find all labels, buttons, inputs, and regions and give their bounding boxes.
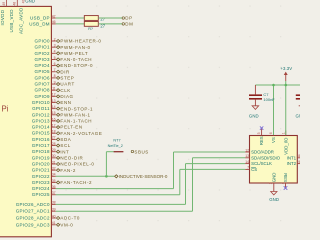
svg-text:PWM-HEATER-0: PWM-HEATER-0	[60, 39, 101, 44]
svg-text:CLK: CLK	[60, 88, 70, 93]
hierarchical label STEP	[56, 76, 74, 81]
hierarchical label FAN-0-TACH	[56, 57, 92, 62]
svg-text:SDA/SDI/SDIO: SDA/SDI/SDIO	[251, 155, 281, 160]
svg-text:29: 29	[52, 148, 56, 152]
svg-text:DM: DM	[125, 22, 133, 27]
hierarchical label FAN-2-VOLTAGE	[56, 131, 102, 136]
svg-text:GND: GND	[25, 0, 35, 4]
hierarchical label PWM-FAN-0	[56, 45, 90, 50]
svg-text:GPIO20: GPIO20	[32, 161, 50, 166]
svg-text:DIR: DIR	[60, 69, 70, 74]
pin 36 GPIO24	[32, 185, 56, 191]
svg-text:NEO-PIXEL-0: NEO-PIXEL-0	[60, 162, 94, 167]
svg-text:DIAG: DIAG	[60, 94, 73, 99]
svg-text:PWM-FAN-1: PWM-FAN-1	[60, 112, 90, 117]
svg-text:13: 13	[52, 99, 56, 103]
svg-text:40: 40	[52, 214, 56, 218]
pin 14 GPIO11	[32, 105, 56, 111]
svg-text:GPIO22: GPIO22	[32, 174, 50, 179]
ground symbol below C8 (cut)	[296, 106, 306, 119]
svg-text:15: 15	[52, 111, 56, 115]
svg-text:12: 12	[52, 93, 56, 97]
svg-text:GPIO10: GPIO10	[32, 100, 50, 105]
hierarchical label END-STOP-0	[56, 63, 93, 68]
pin 4 GPIO2	[35, 50, 56, 56]
hierarchical label FAN-TACH-2	[56, 180, 92, 185]
wire GPIO22 to INDUCTIVE-SENSOR-0	[56, 175, 115, 177]
svg-text:41: 41	[52, 221, 56, 225]
net tie NT7 NetTie_2	[108, 139, 124, 152]
svg-text:14: 14	[52, 105, 56, 109]
svg-text:9: 9	[54, 80, 56, 84]
svg-text:28: 28	[52, 142, 56, 146]
hierarchical label END-STOP-1	[56, 106, 93, 111]
svg-text:PELT-EN: PELT-EN	[60, 125, 82, 130]
vertical pin name IOVDD	[0, 9, 5, 25]
no-connect X on pin 5	[260, 126, 263, 129]
svg-text:ADC_AVDD: ADC_AVDD	[19, 7, 24, 34]
svg-text:GPIO5: GPIO5	[35, 69, 50, 74]
hierarchical label PWM-PELT	[56, 51, 88, 56]
svg-text:FAN-TACH-2: FAN-TACH-2	[60, 180, 92, 185]
svg-text:8: 8	[298, 154, 300, 158]
hierarchical label ENN	[56, 100, 71, 105]
svg-text:17: 17	[52, 123, 56, 127]
hierarchical label DIR	[56, 69, 70, 74]
ground symbol below C7	[249, 106, 259, 119]
pin 8 GPIO6	[35, 74, 56, 80]
svg-text:NEO-DIR: NEO-DIR	[60, 155, 83, 160]
svg-text:SCL/SCLK: SCL/SCLK	[251, 161, 272, 166]
svg-text:11: 11	[52, 87, 56, 91]
svg-text:GPIO24: GPIO24	[32, 186, 50, 191]
svg-text:INT2: INT2	[287, 161, 297, 166]
hierarchical label PWM-FAN-1	[56, 112, 90, 117]
svg-text:SCL: SCL	[60, 143, 70, 148]
pin 46 USB_DM	[29, 20, 56, 26]
hierarchical label INT	[56, 149, 69, 154]
pin 44 VREG_VIN (top, partial)	[0, 1, 1, 5]
svg-text:12: 12	[245, 148, 249, 152]
svg-text:+3.3V: +3.3V	[280, 66, 292, 71]
svg-text:6: 6	[269, 132, 273, 134]
power symbol +3.3V	[280, 66, 292, 81]
svg-text:8: 8	[54, 74, 56, 78]
wire R2 to DM label	[98, 23, 122, 25]
svg-text:4: 4	[54, 50, 56, 54]
svg-text:VM-0: VM-0	[60, 222, 73, 227]
svg-text:5: 5	[257, 132, 261, 134]
svg-text:7: 7	[54, 68, 56, 72]
svg-text:GPIO8: GPIO8	[35, 88, 50, 93]
svg-text:1: 1	[281, 132, 285, 134]
svg-text:RES: RES	[283, 173, 288, 182]
svg-text:GPIO1: GPIO1	[35, 45, 50, 50]
wire +3.3V down to VDD_I/O	[285, 81, 287, 135]
svg-text:IOVDD: IOVDD	[0, 9, 5, 25]
pin 29 GPIO18	[32, 148, 56, 154]
hierarchical label CLK	[56, 88, 70, 93]
hierarchical label VM-0	[56, 222, 73, 227]
pin 32 GPIO21	[32, 166, 56, 172]
hierarchical label ADC-T0	[56, 216, 80, 221]
svg-text:34: 34	[52, 173, 56, 177]
svg-text:INDUCTIVE-SENSOR-0: INDUCTIVE-SENSOR-0	[119, 174, 168, 179]
hierarchical label UART	[56, 82, 74, 87]
svg-text:7: 7	[247, 166, 249, 170]
hierarchical label SBUS	[131, 149, 149, 154]
reference designator Pi	[1, 104, 8, 113]
svg-text:GPIO27_ADC1: GPIO27_ADC1	[16, 209, 50, 214]
hierarchical label SCL	[56, 143, 70, 148]
svg-text:NetTie_2: NetTie_2	[108, 144, 123, 148]
junction rail/VDD	[284, 84, 287, 87]
hierarchical label SDA	[56, 137, 71, 142]
svg-text:39: 39	[52, 208, 56, 212]
svg-text:DP: DP	[125, 16, 132, 21]
svg-text:SDA: SDA	[60, 137, 71, 142]
ground symbol below accelerometer	[269, 192, 279, 203]
pin 34 GPIO22	[32, 173, 56, 179]
hierarchical label INDUCTIVE-SENSOR-0	[115, 174, 168, 179]
svg-text:FAN-1-TACH: FAN-1-TACH	[60, 119, 92, 124]
pin 16 GPIO13	[32, 117, 56, 123]
capacitor C8 (cut at edge)	[296, 95, 302, 99]
svg-text:GND: GND	[249, 114, 259, 119]
wire junction up to net tie	[106, 152, 113, 177]
svg-text:GPIO14: GPIO14	[32, 125, 50, 130]
pin 7 CS	[245, 166, 257, 172]
svg-text:FAN-0-TACH: FAN-0-TACH	[60, 57, 92, 62]
svg-text:16: 16	[52, 117, 56, 121]
svg-text:VS: VS	[271, 137, 276, 143]
pin 6 VS	[269, 131, 276, 144]
svg-text:USB_DM: USB_DM	[29, 21, 50, 26]
hierarchical label FAN-1-TACH	[56, 119, 92, 124]
pin 49 IOVDD (top)	[2, 0, 7, 6]
pin 18 GPIO15	[32, 130, 56, 136]
svg-text:38: 38	[52, 201, 56, 205]
svg-text:GPIO13: GPIO13	[32, 118, 50, 123]
svg-text:GPIO17: GPIO17	[32, 143, 50, 148]
svg-text:GPIO0: GPIO0	[35, 38, 50, 43]
svg-text:30: 30	[52, 154, 56, 158]
hierarchical label PELT-EN	[56, 125, 82, 130]
pin 14 SCL/SCLK	[245, 160, 272, 166]
pin 31 GPIO20	[32, 160, 56, 166]
resistor R1 27R	[84, 16, 105, 26]
svg-text:2: 2	[54, 37, 56, 41]
wire +3.3V rail	[255, 84, 300, 86]
wire rail down to VS	[273, 85, 275, 135]
capacitor C7 100nF	[249, 85, 275, 106]
svg-text:49: 49	[2, 2, 6, 6]
hierarchical label DM	[122, 22, 133, 27]
svg-text:37: 37	[52, 191, 56, 195]
svg-text:31: 31	[52, 160, 56, 164]
svg-text:PWM-PELT: PWM-PELT	[60, 51, 88, 56]
svg-text:GPIO2: GPIO2	[35, 51, 50, 56]
junction on GPIO22 net	[105, 175, 108, 178]
svg-text:5: 5	[54, 56, 56, 60]
resistor R2 27R	[84, 22, 105, 32]
pin 48 USB_VDD (top)	[13, 0, 18, 6]
wire SDA net: GPIO row to accelerometer	[56, 158, 245, 211]
svg-text:GPIO28_ADC2: GPIO28_ADC2	[16, 215, 50, 220]
svg-text:32: 32	[52, 166, 56, 170]
hierarchical label DIAG	[56, 94, 73, 99]
no-connect X on pin 4	[284, 186, 288, 190]
vertical pin name ADC_AVDD	[19, 7, 24, 34]
pin 37 GPIO25	[32, 191, 56, 197]
hierarchical label NEO-DIR	[56, 155, 83, 160]
net label GND (top)	[25, 0, 35, 4]
wire SCL net: GPIO row to accelerometer	[56, 164, 245, 205]
svg-text:GPIO12: GPIO12	[32, 112, 50, 117]
svg-text:ENN: ENN	[60, 100, 71, 105]
svg-text:GN: GN	[296, 114, 301, 119]
svg-text:NT7: NT7	[113, 139, 120, 143]
svg-text:USB_VDD: USB_VDD	[9, 9, 14, 33]
svg-text:GPIO16: GPIO16	[32, 137, 50, 142]
accelerometer U2 (ADXL345) body	[250, 136, 298, 184]
svg-text:48: 48	[13, 2, 17, 6]
svg-text:R?: R?	[88, 27, 93, 31]
svg-text:USB_DP: USB_DP	[30, 15, 50, 20]
wire SDO net: GPIO row to accelerometer	[56, 152, 245, 189]
pin 2 GPIO0	[35, 37, 56, 43]
svg-text:GPIO9: GPIO9	[35, 94, 50, 99]
svg-text:FAN-2-VOLTAGE: FAN-2-VOLTAGE	[60, 131, 102, 136]
hierarchical label DP	[122, 16, 133, 21]
svg-text:STEP: STEP	[60, 76, 74, 81]
hierarchical label NEO-PIXEL-0	[56, 162, 94, 167]
svg-text:Pi: Pi	[1, 104, 8, 113]
pin 9 GPIO7	[35, 80, 56, 86]
vertical pin name USB_VDD	[9, 9, 14, 33]
pin 5 RES (no connect)	[257, 129, 264, 145]
pin 41 GPIO29_ADC3	[16, 221, 56, 227]
svg-text:GPIO23: GPIO23	[32, 180, 50, 185]
svg-text:18: 18	[52, 130, 56, 134]
svg-text:INT1: INT1	[287, 155, 297, 160]
svg-text:INT: INT	[60, 149, 69, 154]
pin 8 INT1	[287, 154, 301, 160]
svg-text:ADC-T0: ADC-T0	[60, 216, 80, 221]
pin 39 GPIO27_ADC1	[16, 208, 56, 214]
pin 11 GPIO8	[35, 87, 56, 93]
pin 7 GPIO5	[35, 68, 56, 74]
hierarchical label FAN-2	[56, 168, 76, 173]
svg-text:END-STOP-0: END-STOP-0	[60, 63, 93, 68]
wire R1 to DP label	[98, 17, 122, 19]
wire USB_DM to R2	[56, 23, 85, 25]
svg-text:GPIO3: GPIO3	[35, 57, 50, 62]
svg-text:9: 9	[298, 160, 300, 164]
svg-text:GPIO26_ADC0: GPIO26_ADC0	[16, 202, 50, 207]
svg-text:47: 47	[52, 14, 56, 18]
svg-text:27: 27	[100, 17, 105, 22]
pin 15 GPIO12	[32, 111, 56, 117]
svg-text:UART: UART	[60, 82, 74, 87]
pin 6 GPIO4	[35, 62, 56, 68]
pin 13 GPIO10	[32, 99, 56, 105]
junction rail/VS	[272, 84, 275, 87]
svg-text:3: 3	[54, 43, 56, 47]
svg-text:GPIO18: GPIO18	[32, 149, 50, 154]
wire CS net: GPIO row to accelerometer	[56, 169, 245, 194]
svg-text:35: 35	[52, 179, 56, 183]
svg-text:SBUS: SBUS	[134, 149, 148, 154]
svg-text:SDO/ADDR: SDO/ADDR	[251, 150, 274, 155]
pin 27 GPIO16	[32, 136, 56, 142]
pin 1 VDD_I/O	[281, 131, 288, 155]
svg-text:6: 6	[54, 62, 56, 66]
svg-text:FAN-2: FAN-2	[60, 168, 76, 173]
svg-text:GPIO11: GPIO11	[32, 106, 50, 111]
svg-text:VDD_I/O: VDD_I/O	[283, 137, 288, 155]
pin 3 GPIO1	[35, 43, 56, 49]
pin 47 USB_DP	[30, 14, 56, 20]
svg-text:GPIO4: GPIO4	[35, 63, 50, 68]
svg-text:END-STOP-1: END-STOP-1	[60, 106, 93, 111]
svg-text:PWM-FAN-0: PWM-FAN-0	[60, 45, 90, 50]
pin 4 RES (bottom, no connect)	[281, 173, 288, 187]
svg-text:GPIO21: GPIO21	[32, 168, 50, 173]
pin 43 ADC_AVDD (top)	[22, 0, 26, 3]
pin 12 SDO/ADDR	[245, 148, 274, 154]
pin 12 GPIO9	[35, 93, 56, 99]
svg-text:GPIO29_ADC3: GPIO29_ADC3	[16, 222, 50, 227]
svg-text:27: 27	[52, 136, 56, 140]
pin 17 GPIO14	[32, 123, 56, 129]
svg-text:36: 36	[52, 185, 56, 189]
pin 35 GPIO23	[32, 179, 56, 185]
pin 2 GND (bottom)	[269, 173, 277, 192]
svg-text:GND: GND	[271, 173, 276, 183]
svg-text:GPIO25: GPIO25	[32, 192, 50, 197]
svg-text:GPIO7: GPIO7	[35, 82, 50, 87]
svg-text:GPIO6: GPIO6	[35, 75, 50, 80]
pin 13 SDA/SDI/SDIO	[245, 154, 280, 160]
MCU U1 Pi (RP2040) body	[0, 6, 51, 236]
svg-text:100nF: 100nF	[263, 97, 275, 102]
svg-text:GND: GND	[269, 197, 279, 202]
svg-text:RES: RES	[259, 136, 264, 145]
svg-text:GPIO15: GPIO15	[32, 131, 50, 136]
svg-text:GPIO19: GPIO19	[32, 155, 50, 160]
wire USB_DP to R1	[56, 17, 85, 19]
pin 38 GPIO26_ADC0	[16, 201, 56, 207]
pin 9 INT2	[287, 160, 301, 166]
pin 5 GPIO3	[35, 56, 56, 62]
hierarchical label PWM-HEATER-0	[56, 39, 101, 44]
svg-text:13: 13	[245, 154, 249, 158]
pin 30 GPIO19	[32, 154, 56, 160]
svg-text:4: 4	[281, 182, 285, 184]
pin 28 GPIO17	[32, 142, 56, 148]
svg-text:14: 14	[245, 160, 249, 164]
svg-text:46: 46	[52, 20, 56, 24]
pin 40 GPIO28_ADC2	[16, 214, 56, 220]
